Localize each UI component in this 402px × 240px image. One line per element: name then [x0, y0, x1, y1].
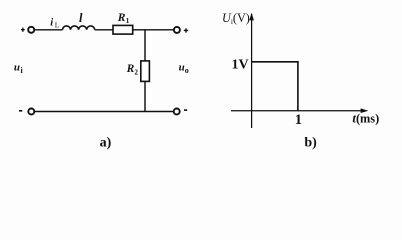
- minus sign output bottom: [184, 109, 187, 111]
- terminal bottom-left: [28, 109, 34, 115]
- terminal top-right: [174, 27, 180, 33]
- plus sign output top: [184, 28, 188, 32]
- plus sign input top: [21, 28, 25, 32]
- inductor L: [63, 26, 95, 30]
- svg-text:b): b): [304, 135, 317, 150]
- pulse waveform 1V step: [252, 62, 298, 111]
- svg-text:Ui(V): Ui(V): [222, 11, 250, 26]
- svg-text:L: L: [55, 21, 60, 30]
- terminal top-left: [28, 27, 34, 33]
- vertical axis arrowhead: [249, 13, 254, 21]
- svg-text:i: i: [21, 66, 24, 75]
- svg-text:i: i: [50, 17, 53, 28]
- terminal bottom-right: [174, 109, 180, 115]
- bottom wire: [35, 111, 174, 113]
- wire inductor to R1: [95, 29, 113, 31]
- svg-text:u: u: [14, 62, 20, 74]
- node junction wire down from top: [144, 30, 146, 61]
- svg-text:1V: 1V: [232, 58, 249, 73]
- vertical axis: [251, 14, 253, 128]
- svg-text:R: R: [126, 63, 135, 75]
- wire R1 to right terminal: [134, 29, 174, 31]
- horizontal axis: [231, 110, 367, 112]
- minus sign input bottom: [19, 110, 22, 112]
- svg-text:t(ms): t(ms): [352, 112, 379, 126]
- wire R2 to bottom: [144, 82, 146, 112]
- horizontal axis arrowhead: [361, 108, 369, 113]
- svg-text:1: 1: [295, 112, 302, 128]
- svg-text:2: 2: [134, 68, 138, 76]
- svg-text:l: l: [79, 11, 83, 25]
- svg-text:R: R: [117, 12, 126, 24]
- svg-text:1: 1: [126, 17, 130, 25]
- wire terminal to inductor: [35, 29, 63, 31]
- resistor R1: [113, 25, 133, 34]
- svg-text:a): a): [100, 135, 112, 150]
- resistor R2: [141, 61, 150, 82]
- svg-text:o: o: [185, 66, 189, 75]
- svg-text:u: u: [179, 62, 185, 74]
